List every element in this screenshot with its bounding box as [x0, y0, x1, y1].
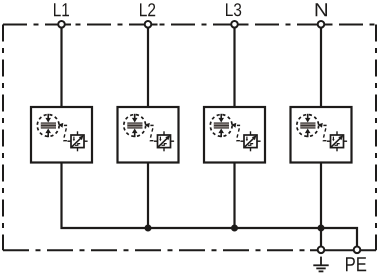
- trigger unit U2 inner electrode marks: [159, 137, 167, 146]
- trigger unit U2 square body: [158, 135, 171, 148]
- wire L2 SPD module to PE bus: [147, 163, 149, 229]
- terminal N: [318, 21, 325, 28]
- enclosure boundary right (dash-dot): [375, 25, 377, 251]
- dashed trigger control line N: [323, 128, 327, 140]
- wire L1 terminal to SPD module: [60, 25, 62, 108]
- trigger unit U4 square body: [331, 135, 344, 148]
- spark gap F3 bottom arrow: [218, 129, 224, 138]
- junction L3/bus: [231, 225, 238, 232]
- trigger unit U4 inner electrode marks: [332, 137, 340, 146]
- terminal PE: [354, 247, 361, 254]
- trigger unit U4 diagonal arrow: [331, 135, 343, 147]
- trigger unit U1 connection stubs: [67, 131, 87, 151]
- terminal L2: [145, 21, 152, 28]
- spark gap F2 dashed circle: [124, 115, 146, 137]
- spark gap F1 bottom arrow: [45, 129, 51, 138]
- spark gap F4 electrode stack: [300, 122, 315, 128]
- SPD module L3 enclosure box: [204, 107, 265, 163]
- wire L2 terminal to SPD module: [147, 25, 149, 108]
- spark gap F2 top arrow: [132, 114, 138, 123]
- spark gap F4 dashed circle: [297, 115, 319, 137]
- spark gap F4 bottom arrow: [305, 129, 311, 138]
- wire L3 SPD module to PE bus: [233, 163, 235, 229]
- spark gap F4 top arrow: [305, 114, 311, 123]
- SPD module L1 enclosure box: [31, 107, 92, 163]
- trigger unit U1 diagonal arrow: [72, 135, 84, 147]
- spark gap F1 electrode stack: [41, 122, 56, 128]
- trigger unit U4 connection stubs: [327, 131, 347, 151]
- SPD module N enclosure box: [291, 107, 352, 163]
- trigger unit U1 square body: [71, 135, 84, 148]
- trigger arrow into spark gap F3: [231, 123, 240, 128]
- trigger unit U3 diagonal arrow: [245, 135, 257, 147]
- terminal L3: [231, 21, 238, 28]
- label PE: [346, 257, 366, 271]
- wire N terminal to SPD module: [320, 25, 322, 108]
- earthing terminal circle: [318, 247, 325, 254]
- enclosure boundary bottom-right solid run through PE terminals: [310, 249, 376, 251]
- label L1: [54, 3, 69, 16]
- label L3: [226, 3, 241, 16]
- wire stub through terminal L1: [52, 24, 71, 26]
- trigger unit U2 diagonal arrow: [158, 135, 170, 147]
- trigger arrow into spark gap F2: [145, 123, 154, 128]
- trigger arrow into spark gap F1: [58, 123, 67, 128]
- wire stub through terminal L2: [139, 24, 158, 26]
- spark gap F3 top arrow: [218, 114, 224, 123]
- label N: [316, 3, 327, 16]
- dashed trigger control line L2: [150, 128, 154, 140]
- trigger unit U3 inner electrode marks: [246, 137, 254, 146]
- junction N/bus: [318, 225, 325, 232]
- wire stub through terminal L3: [225, 24, 244, 26]
- spark gap F3 dashed circle: [210, 115, 232, 137]
- wire stub through terminal N: [312, 24, 331, 26]
- dashed trigger control line L1: [64, 128, 68, 140]
- trigger unit U1 inner electrode marks: [73, 137, 81, 146]
- spark gap F3 electrode stack: [214, 122, 229, 128]
- enclosure boundary bottom (dash-dot): [3, 249, 310, 251]
- enclosure boundary top (dash-dot): [3, 24, 376, 26]
- trigger unit U3 connection stubs: [240, 131, 260, 151]
- trigger arrow into spark gap F4: [318, 123, 327, 128]
- PE collecting bus wire (L1 drop, bus run, drop to PE terminal): [62, 163, 358, 250]
- dashed trigger control line L3: [237, 128, 241, 140]
- spark gap F1 dashed circle: [37, 115, 59, 137]
- wire N-column drop to earthing terminal: [320, 228, 322, 250]
- spark gap F2 electrode stack: [127, 122, 142, 128]
- label L2: [140, 3, 155, 16]
- SPD module L2 enclosure box: [118, 107, 179, 163]
- trigger unit U2 connection stubs: [154, 131, 174, 151]
- enclosure boundary left (dash-dot): [2, 25, 4, 251]
- terminal L1: [58, 21, 65, 28]
- trigger unit U3 square body: [244, 135, 257, 148]
- spark gap F2 bottom arrow: [132, 129, 138, 138]
- spark gap F1 top arrow: [45, 114, 51, 123]
- wire N SPD module to PE bus: [320, 163, 322, 229]
- wire L3 terminal to SPD module: [233, 25, 235, 108]
- ground (earth) symbol: [313, 257, 328, 272]
- junction L2/bus: [145, 225, 152, 232]
